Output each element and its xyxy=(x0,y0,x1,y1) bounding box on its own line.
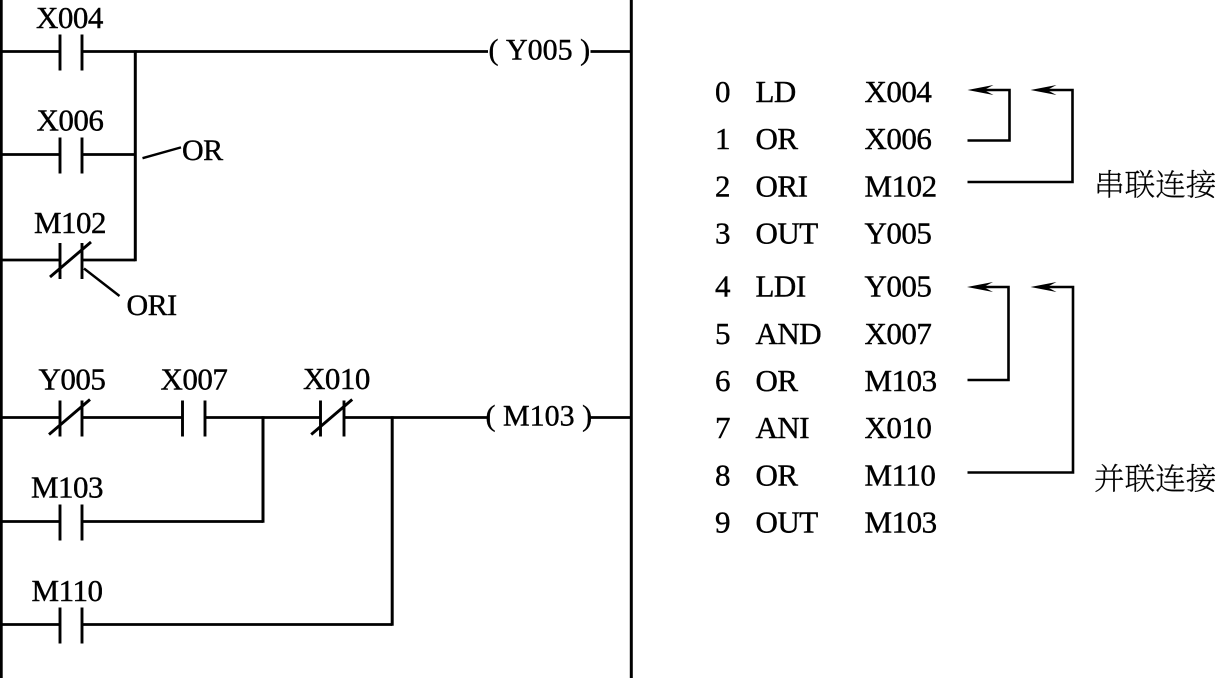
svg-text:( M103 ): ( M103 ) xyxy=(485,400,592,433)
annotation pointer ORI xyxy=(84,269,120,297)
svg-text:X006: X006 xyxy=(865,121,932,156)
contact M103 (NO) xyxy=(60,505,82,541)
svg-text:ORI: ORI xyxy=(127,289,177,322)
instruction 7: ANI X010 xyxy=(715,410,931,445)
svg-text:LD: LD xyxy=(756,74,796,109)
wire M103 branch to junction xyxy=(82,520,263,523)
wire coil M103 to right rail xyxy=(591,416,632,419)
svg-text:7: 7 xyxy=(715,410,730,445)
left power rail xyxy=(0,0,3,678)
contact M110 (NO) xyxy=(60,608,82,644)
instruction 1: OR X006 xyxy=(715,121,931,156)
wire X006 branch to junction xyxy=(82,153,135,156)
svg-text:Y005: Y005 xyxy=(865,269,932,304)
instruction 6: OR M103 xyxy=(715,363,937,398)
wire OR branch vertical junction xyxy=(134,50,137,261)
instruction 9: OUT M103 xyxy=(715,505,937,540)
svg-text:OR: OR xyxy=(756,121,799,156)
svg-text:M103: M103 xyxy=(31,470,103,505)
svg-text:9: 9 xyxy=(715,505,730,540)
label 串联连接 (series connection) xyxy=(1098,170,1215,198)
arrow M103 OR result to LDI Y005 xyxy=(967,282,1009,380)
svg-text:2: 2 xyxy=(715,169,730,204)
svg-text:X007: X007 xyxy=(865,316,932,351)
svg-text:3: 3 xyxy=(715,216,730,251)
wire M110 branch vertical junction xyxy=(391,416,394,626)
wire M102 branch from left rail xyxy=(0,259,60,262)
wire rung2 X010 to coil M103 xyxy=(344,416,488,419)
wire rung2 left rail to Y005 xyxy=(0,416,60,419)
wire rung2 X007 to X010 xyxy=(205,416,321,419)
svg-text:LDI: LDI xyxy=(756,269,806,304)
svg-text:OR: OR xyxy=(182,134,223,167)
contact X004 (NO) xyxy=(60,35,82,71)
instruction 2: ORI M102 xyxy=(715,169,937,204)
svg-text:OR: OR xyxy=(756,363,799,398)
instruction 0: LD X004 xyxy=(715,74,932,109)
svg-text:M102: M102 xyxy=(865,169,937,204)
contact X010 (NC) xyxy=(311,400,352,437)
instruction 4: LDI Y005 xyxy=(715,269,931,304)
svg-text:X004: X004 xyxy=(36,0,104,35)
svg-text:M103: M103 xyxy=(865,505,937,540)
instruction 5: AND X007 xyxy=(715,316,931,351)
right power rail xyxy=(630,0,633,678)
wire rung2 Y005 to X007 xyxy=(82,416,183,419)
svg-text:6: 6 xyxy=(715,363,730,398)
svg-text:X010: X010 xyxy=(303,361,370,396)
svg-text:M102: M102 xyxy=(34,205,106,240)
svg-text:ORI: ORI xyxy=(756,169,808,204)
svg-text:Y005: Y005 xyxy=(39,362,106,397)
contact X006 (NO) xyxy=(60,138,82,174)
wire rung1 X004 to coil Y005 xyxy=(82,50,488,53)
svg-text:( Y005 ): ( Y005 ) xyxy=(488,34,590,67)
wire M110 branch to junction xyxy=(82,623,392,626)
wire M103 branch from left rail xyxy=(0,520,60,523)
svg-text:8: 8 xyxy=(715,458,730,493)
svg-text:0: 0 xyxy=(715,74,730,109)
svg-text:5: 5 xyxy=(715,316,730,351)
svg-text:1: 1 xyxy=(715,121,730,156)
label 并联连接 (parallel connection) xyxy=(1095,464,1215,492)
svg-text:Y005: Y005 xyxy=(865,216,932,251)
svg-text:X007: X007 xyxy=(161,362,228,397)
annotation pointer OR xyxy=(143,147,182,158)
contact M102 (NC) xyxy=(50,242,91,279)
svg-text:OUT: OUT xyxy=(756,216,819,251)
svg-text:X004: X004 xyxy=(865,74,933,109)
svg-text:M110: M110 xyxy=(865,458,936,493)
arrow X006 OR result to LD X004 xyxy=(968,85,1010,141)
svg-text:M110: M110 xyxy=(32,573,103,608)
instruction 8: OR M110 xyxy=(715,458,935,493)
svg-text:M103: M103 xyxy=(865,363,937,398)
instruction 3: OUT Y005 xyxy=(715,216,931,251)
svg-text:4: 4 xyxy=(715,269,731,304)
arrow M102 ORI result to LD X004 xyxy=(968,85,1073,182)
svg-text:OUT: OUT xyxy=(756,505,819,540)
svg-text:AND: AND xyxy=(756,316,822,351)
wire coil Y005 to right rail xyxy=(591,50,632,53)
wire rung1 left rail to X004 xyxy=(0,50,60,53)
svg-text:OR: OR xyxy=(756,458,799,493)
svg-text:X006: X006 xyxy=(37,103,104,138)
wire M103 branch vertical junction xyxy=(262,416,265,523)
wire M102 branch to junction xyxy=(82,259,135,262)
wire X006 branch from left rail xyxy=(0,153,60,156)
wire M110 branch from left rail xyxy=(0,623,60,626)
contact X007 (NO) xyxy=(183,401,206,437)
arrow M110 OR result to LDI Y005 xyxy=(968,282,1074,473)
svg-text:X010: X010 xyxy=(865,410,932,445)
svg-text:ANI: ANI xyxy=(756,410,810,445)
contact Y005 (NC) xyxy=(49,400,90,437)
